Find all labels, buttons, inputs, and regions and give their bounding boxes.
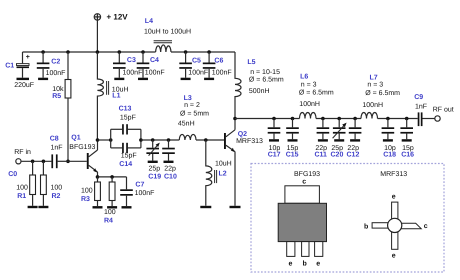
svg-text:e: e: [316, 260, 320, 267]
wire Q1 collector node to C13/C14 block: [96, 138, 111, 142]
svg-text:C4: C4: [150, 57, 159, 64]
ground for L2: [200, 206, 211, 208]
wire Q1 emitter node: [96, 175, 127, 179]
svg-text:BFG193: BFG193: [69, 144, 95, 151]
svg-text:220uF: 220uF: [14, 82, 34, 89]
capacitor C2 100nF: [37, 50, 66, 77]
svg-text:C19: C19: [148, 174, 161, 181]
svg-text:L4: L4: [145, 18, 153, 25]
svg-text:R5: R5: [52, 93, 61, 100]
ground for C4: [138, 78, 148, 80]
svg-text:C16: C16: [401, 151, 414, 158]
capacitor C14 15pF: [111, 129, 141, 168]
svg-text:+: +: [26, 54, 30, 61]
svg-text:Ø = 5mm: Ø = 5mm: [180, 110, 209, 118]
ground for C19: [148, 161, 158, 163]
inductor L6 100nH: [299, 73, 334, 118]
package BFG193 pinout: [278, 171, 326, 267]
inset pinout box: [251, 164, 444, 273]
svg-text:C11: C11: [315, 151, 328, 158]
svg-text:e: e: [289, 260, 293, 267]
svg-text:L6: L6: [300, 73, 308, 80]
svg-text:b: b: [364, 222, 368, 230]
capacitor C13 15pF: [111, 106, 141, 148]
capacitor C8 1nF series: [50, 136, 68, 169]
capacitor C1 220uF electrolytic: [5, 52, 34, 89]
capacitor C7 100nF: [120, 177, 154, 206]
capacitor C12 22p: [347, 117, 362, 159]
capacitor C16 15p: [400, 117, 414, 159]
terminal RF in: [8, 148, 31, 178]
inductor L2 10uH: [206, 140, 232, 206]
svg-text:C6: C6: [214, 58, 223, 65]
terminal RF out: [433, 107, 454, 122]
svg-text:100nF: 100nF: [188, 69, 208, 76]
svg-text:100nF: 100nF: [145, 69, 165, 76]
svg-text:100nF: 100nF: [46, 70, 66, 77]
svg-text:b: b: [303, 259, 307, 267]
svg-text:100: 100: [81, 188, 93, 195]
capacitor C9 1nF series: [414, 94, 435, 126]
svg-text:C1: C1: [5, 62, 14, 69]
capacitor C18 10p: [382, 117, 397, 159]
ground for C12: [350, 139, 360, 141]
ground for C17: [269, 139, 279, 141]
capacitor C3 100nF: [113, 50, 142, 77]
svg-text:C0: C0: [8, 171, 17, 178]
svg-text:C18: C18: [383, 151, 396, 158]
transistor Q2 MRF313: [224, 119, 263, 206]
wire C13/C14 block to L3: [139, 138, 179, 142]
svg-text:MRF313: MRF313: [236, 138, 263, 145]
ground for C10: [164, 161, 174, 163]
svg-text:Q1: Q1: [71, 135, 80, 142]
svg-text:Ø = 6.5mm: Ø = 6.5mm: [249, 76, 284, 84]
wire L6 to L7: [316, 118, 361, 120]
package MRF313 pinout: [364, 171, 428, 259]
ground for C18: [383, 139, 393, 141]
ground for C6: [204, 78, 214, 80]
svg-text:45nH: 45nH: [178, 121, 195, 128]
svg-text:c: c: [424, 223, 428, 230]
svg-text:C10: C10: [164, 174, 177, 181]
capacitor C10 22p: [162, 138, 177, 180]
wire collector Q2 output node: [233, 117, 299, 121]
trimmer capacitor C19 25p: [146, 138, 161, 180]
resistor R4 100: [104, 177, 116, 225]
svg-text:100nF: 100nF: [123, 69, 143, 76]
svg-text:L2: L2: [219, 170, 227, 177]
capacitor C17 10p: [268, 117, 281, 159]
ground for C5: [181, 78, 191, 80]
svg-text:22p: 22p: [164, 166, 176, 173]
svg-text:+ 12V: + 12V: [107, 13, 129, 22]
ground for C2: [38, 78, 48, 80]
svg-text:10uH: 10uH: [215, 160, 232, 167]
power +12V supply terminal: [94, 13, 128, 54]
capacitor C5 100nF: [179, 50, 208, 77]
svg-text:RF out: RF out: [433, 107, 454, 114]
trimmer capacitor C20 25p: [331, 117, 347, 159]
resistor R3 100: [81, 177, 100, 206]
svg-text:L3: L3: [184, 95, 192, 102]
svg-text:n = 2: n = 2: [184, 102, 200, 109]
svg-text:BFG193: BFG193: [294, 171, 320, 178]
svg-text:n = 3: n = 3: [301, 81, 317, 88]
svg-text:C9: C9: [414, 94, 423, 101]
svg-text:100nF: 100nF: [135, 190, 155, 197]
wire L3 to Q2 base: [196, 138, 224, 142]
transistor Q1 BFG193: [68, 135, 98, 177]
svg-text:1nF: 1nF: [415, 104, 427, 111]
svg-text:25p: 25p: [149, 166, 161, 173]
wire +12V rail left segment: [23, 51, 156, 53]
ground for Q2 emitter: [230, 206, 241, 208]
svg-text:R2: R2: [52, 193, 61, 200]
svg-text:c: c: [302, 179, 306, 186]
node collector Q1: [109, 138, 113, 142]
svg-text:C14: C14: [119, 161, 132, 168]
resistor R2 100: [41, 160, 63, 206]
svg-text:e: e: [392, 193, 396, 200]
svg-text:15pF: 15pF: [120, 114, 136, 121]
svg-text:10uH to 100uH: 10uH to 100uH: [144, 28, 191, 35]
capacitor C15 15p: [286, 117, 299, 159]
inductor L1 10uH: [97, 52, 128, 140]
svg-text:C7: C7: [135, 182, 144, 189]
svg-text:100nH: 100nH: [299, 101, 320, 108]
svg-text:R4: R4: [104, 218, 113, 225]
ground for C15: [288, 139, 298, 141]
svg-text:100nF: 100nF: [212, 69, 232, 76]
svg-text:100nH: 100nH: [362, 102, 383, 109]
capacitor C6 100nF: [203, 50, 232, 77]
resistor R1 100: [16, 160, 35, 206]
svg-text:MRF313: MRF313: [380, 171, 407, 178]
svg-text:n = 3: n = 3: [367, 81, 383, 88]
ground for C11: [318, 139, 328, 141]
svg-text:10k: 10k: [52, 85, 64, 93]
svg-text:C2: C2: [51, 58, 60, 65]
svg-text:100: 100: [104, 209, 116, 216]
svg-text:C12: C12: [347, 151, 360, 158]
ground for C20: [334, 139, 344, 141]
svg-text:n = 10-15: n = 10-15: [250, 69, 280, 76]
svg-text:C8: C8: [50, 136, 59, 143]
svg-text:15pF: 15pF: [121, 152, 137, 159]
ground for R1: [28, 206, 38, 208]
svg-text:L1: L1: [112, 92, 120, 99]
ground for R2: [38, 206, 48, 208]
resistor R5 10k: [52, 50, 71, 163]
ground for C16: [402, 139, 412, 141]
svg-text:Ø = 6.5mm: Ø = 6.5mm: [365, 89, 400, 97]
inductor L3 45nH: [178, 95, 209, 140]
wire L7 to C9: [378, 118, 418, 120]
ground for R3: [93, 206, 103, 208]
svg-text:C5: C5: [192, 58, 201, 65]
svg-text:Q2: Q2: [238, 131, 247, 138]
svg-text:R1: R1: [17, 193, 26, 200]
svg-text:Ø = 6.5mm: Ø = 6.5mm: [299, 89, 334, 97]
svg-text:100: 100: [51, 184, 63, 191]
svg-text:500nH: 500nH: [249, 88, 270, 95]
ground for C7: [122, 206, 132, 208]
svg-text:R3: R3: [81, 196, 90, 203]
svg-text:e: e: [392, 253, 396, 260]
svg-text:100: 100: [16, 184, 28, 191]
svg-text:C20: C20: [331, 151, 344, 158]
svg-text:C17: C17: [268, 151, 281, 158]
capacitor C4 100nF: [137, 50, 165, 77]
svg-text:C3: C3: [127, 57, 136, 64]
ground for C1: [17, 78, 30, 80]
svg-text:1nF: 1nF: [51, 144, 63, 151]
wire +12V rail right segment: [171, 51, 235, 53]
ground for R4: [107, 206, 117, 208]
svg-text:C13: C13: [119, 106, 132, 113]
wire RF in to C8: [21, 160, 51, 162]
ground for C3: [114, 78, 124, 80]
inductor L5 500nH: [235, 52, 284, 119]
svg-text:RF in: RF in: [14, 148, 31, 156]
svg-text:L5: L5: [247, 59, 255, 66]
inductor L7 100nH: [361, 74, 400, 118]
svg-text:L7: L7: [370, 74, 378, 81]
capacitor C11 22p: [315, 117, 330, 159]
svg-text:C15: C15: [286, 151, 299, 158]
inductor L4 10uH-100uH choke: [144, 18, 191, 52]
